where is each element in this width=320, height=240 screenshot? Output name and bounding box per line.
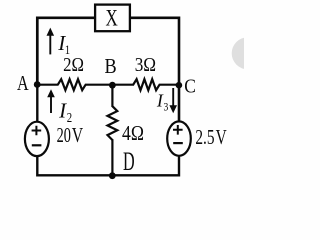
node D junction dot <box>109 172 116 179</box>
resistor 3ohm zigzag <box>133 79 159 90</box>
wire: node B down to resistor 4ohm <box>111 84 113 107</box>
wire: 20V source down, bottom rail, up to 2.5V source <box>37 154 179 176</box>
svg-text:V: V <box>72 124 84 148</box>
wire: node A to resistor 2ohm <box>36 84 59 86</box>
voltage source 20V (ellipse) <box>25 122 49 156</box>
svg-text:X: X <box>105 6 118 31</box>
wire: resistor 3ohm to node C <box>159 84 180 86</box>
svg-text:3Ω: 3Ω <box>135 54 156 77</box>
current arrow I3 (down) <box>169 88 177 113</box>
node C junction dot <box>176 82 183 89</box>
node A junction dot <box>34 81 41 88</box>
resistor 4ohm zigzag (vertical) <box>108 106 118 140</box>
label I2 <box>58 99 72 126</box>
current arrow I2 (up) <box>47 89 55 113</box>
label I3 <box>156 91 168 114</box>
resistor 2ohm zigzag <box>58 79 86 90</box>
wire: resistor 2ohm to node B to resistor 3ohm <box>85 84 134 86</box>
voltage source 2.5V (ellipse) <box>167 121 191 155</box>
svg-text:2: 2 <box>67 110 72 125</box>
svg-text:1: 1 <box>65 43 70 57</box>
svg-text:3: 3 <box>163 101 168 114</box>
wire: resistor 4ohm down to node D <box>111 139 113 176</box>
current arrow I1 (up) <box>47 28 55 55</box>
svg-text:4Ω: 4Ω <box>122 123 144 146</box>
svg-text:I: I <box>58 99 67 123</box>
svg-text:D: D <box>123 147 135 176</box>
wire: node A down to 20V source <box>36 84 38 122</box>
label I1 <box>57 31 70 58</box>
svg-text:2.5: 2.5 <box>195 126 214 149</box>
wire: from box X right side across and down to node C <box>131 18 180 123</box>
svg-text:C: C <box>184 75 196 98</box>
svg-text:V: V <box>216 126 228 149</box>
svg-text:A: A <box>17 72 29 96</box>
svg-text:B: B <box>105 55 117 79</box>
wire: left rail from node A up and across to box X <box>37 18 94 86</box>
svg-text:20: 20 <box>57 123 71 146</box>
box X (unknown element) <box>95 5 130 32</box>
node B junction dot <box>109 82 116 89</box>
